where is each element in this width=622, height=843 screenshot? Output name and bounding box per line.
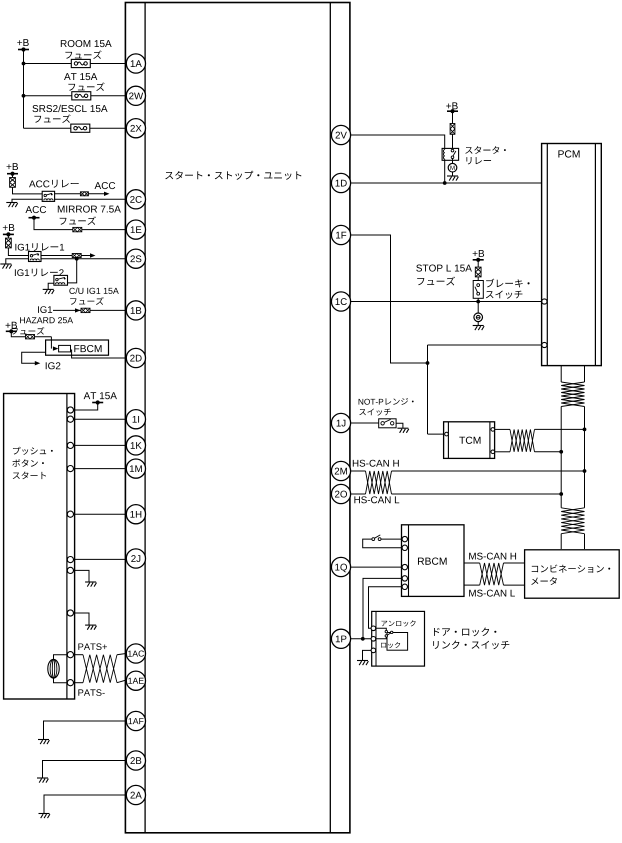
door pins <box>371 626 376 653</box>
pin 1AC <box>128 651 144 657</box>
twisted pair PATS braid <box>83 655 117 683</box>
wire common contact <box>376 637 387 639</box>
ground 1AF <box>38 739 49 741</box>
unit connector pins left <box>126 54 145 805</box>
relay ACC リレー <box>42 191 54 201</box>
wire to 2W <box>24 95 126 97</box>
wire +B bus down <box>23 50 25 129</box>
relay starter スタータ・リレー <box>442 148 459 160</box>
label fuse1 <box>65 50 101 58</box>
pin 2B <box>130 757 141 764</box>
TCM pin right H <box>491 428 495 432</box>
label push line2 <box>12 459 44 467</box>
pin 2S <box>130 255 141 262</box>
label door line2 <box>433 641 509 650</box>
label ROOM 15A <box>61 40 112 47</box>
label fuse4 <box>60 216 96 224</box>
wire 1AF to ground <box>44 721 126 740</box>
fusible link +B IG1 <box>7 234 9 238</box>
label RBCM <box>418 558 447 565</box>
pin 2O <box>335 491 347 498</box>
node TCM-H on bus <box>583 428 587 432</box>
wire to 1A <box>24 63 126 65</box>
wire ACC to 1E <box>34 218 125 230</box>
pin 2J <box>131 555 140 562</box>
label NOT-P line1 <box>359 398 414 405</box>
label PCM <box>558 150 579 157</box>
PCM pin 1F-branch <box>542 342 547 347</box>
wire branch to IG1 relay2 <box>68 259 77 283</box>
wire IG1 relay1 output <box>41 255 91 257</box>
wire PATS+ to 1AC <box>117 654 125 655</box>
label meter line1 <box>532 565 611 573</box>
wire RBCM to unlock contact <box>369 587 403 629</box>
fuse MIRROR 7.5A inline <box>73 227 82 231</box>
relay IG1 リレー1 <box>29 252 42 262</box>
twisted pair HS-CAN braid <box>366 471 392 494</box>
wire IG1 coil line to 2S <box>6 259 126 264</box>
node junction relay2 branch <box>75 257 79 261</box>
wire 1F branch <box>350 235 428 363</box>
label HS-CAN H <box>353 460 399 467</box>
wire branch vertical <box>427 345 429 434</box>
ground starter motor <box>447 175 458 177</box>
pin 1Q <box>335 564 347 573</box>
wire ACC relay output <box>55 193 105 195</box>
fusible link +B ACC <box>12 174 14 178</box>
fuse SRS2/ESCL 15A <box>71 124 90 132</box>
switch RBCM loop <box>381 538 402 540</box>
unit connector pins right <box>331 125 350 648</box>
stop lamp <box>474 313 483 322</box>
label NOT-P line2 <box>359 409 391 416</box>
TCM box <box>444 422 495 459</box>
label +B hazard <box>6 322 17 329</box>
pin 1J <box>337 420 346 427</box>
TCM pin right L <box>491 450 495 454</box>
wire +B to IG1 relay1 <box>8 248 28 256</box>
label FBCM <box>74 345 101 352</box>
power tap ACC (mirror fuse) <box>29 217 40 219</box>
label fuse6 <box>12 327 45 335</box>
pin 2X <box>130 125 141 132</box>
ground NOT-P switch <box>397 427 408 429</box>
wire to ground A <box>70 570 89 582</box>
power tap +B (top-left) <box>18 49 29 51</box>
wire to 1H <box>70 513 125 515</box>
wire brake switch down <box>477 298 479 313</box>
wire 2A to ground <box>44 795 125 814</box>
pin 1D <box>336 180 347 187</box>
ground stop lamp <box>473 325 484 327</box>
node TCM-L on bus <box>559 450 563 454</box>
wire 2B to ground <box>43 761 126 779</box>
wire unlock contact <box>376 628 387 630</box>
label brake sw1 <box>486 279 529 288</box>
wire fuse to brake switch <box>477 277 479 281</box>
TCM pin left <box>445 432 449 436</box>
fuse inline IG1 out <box>72 254 81 258</box>
label ACC relay <box>29 180 79 188</box>
label brake sw2 <box>486 290 523 298</box>
node junction 1F branch <box>426 361 430 365</box>
ground push-button B <box>85 624 96 626</box>
pin 1F <box>336 232 346 239</box>
label push line3 <box>13 472 46 480</box>
label ACC arrow <box>95 182 116 189</box>
label HAZARD 25A <box>20 317 73 323</box>
pin 1AF <box>129 718 144 724</box>
PCM pin 1C <box>542 299 547 304</box>
pin 1P <box>336 636 347 643</box>
wire to 1K <box>70 444 125 446</box>
wire TCM CAN H <box>495 428 510 430</box>
wire motor to ground <box>452 172 454 176</box>
wire AT15A tap <box>70 403 97 411</box>
brake switch ブレーキ・スイッチ <box>473 281 483 299</box>
wire IG1 relay2 to ground <box>48 283 54 289</box>
twisted pair TCM braid <box>510 429 535 451</box>
wire branch to TCM pin <box>428 433 445 435</box>
power tap +B brake <box>473 259 484 261</box>
wire starter coil down <box>444 157 446 183</box>
label +B brake <box>473 250 484 257</box>
wire 1C to PCM <box>350 301 541 303</box>
node HS-CAN-L on bus <box>559 492 563 496</box>
node junction brake/1C <box>476 300 480 304</box>
wire IG1 to 1B <box>53 309 125 311</box>
wire door switch to ground <box>363 650 372 660</box>
wire 1Q to RBCM <box>350 566 402 568</box>
node junction 1P <box>361 637 365 641</box>
wire RBCM to 1P junction <box>363 578 402 638</box>
wire to 1I <box>70 418 125 420</box>
wire branch to PCM pin <box>428 344 542 346</box>
pin 1E <box>131 226 142 233</box>
FBCM box <box>46 340 109 355</box>
fuse ROOM 15A <box>71 59 90 67</box>
label +B ACC <box>7 163 18 170</box>
wire into FBCM <box>50 337 52 344</box>
push-button connector pins <box>67 407 73 686</box>
label MS-CAN H <box>469 553 516 560</box>
fuse AT 15A <box>72 92 91 100</box>
fusible link starter <box>452 111 454 123</box>
fuse C/U IG1 inline <box>81 308 90 312</box>
label door line1 <box>434 628 496 637</box>
label HS-CAN L <box>354 496 399 503</box>
label PATS+ <box>78 643 107 650</box>
ground push-button A <box>85 581 96 583</box>
label ACC tap <box>25 206 46 213</box>
label IG1 relay1 <box>15 243 64 251</box>
wire fuse to starter relay <box>452 134 454 150</box>
power tap +B (IG1) <box>3 233 14 235</box>
ground 2B <box>37 777 48 779</box>
power tap +B (hazard) <box>6 330 17 332</box>
switch blade door <box>387 633 391 635</box>
ground door switch <box>357 660 368 662</box>
power tap AT 15A <box>92 402 103 404</box>
twisted pair bus braid upper <box>561 382 584 407</box>
pin 2D <box>130 355 141 362</box>
label M <box>450 166 454 170</box>
label fuse5 <box>70 297 104 305</box>
label meter line2 <box>531 577 557 585</box>
wire ACC relay coil to 2C <box>12 199 125 202</box>
wire 2O HS-CAN L <box>350 493 366 495</box>
wire FBCM to 2D <box>71 350 126 358</box>
door lock inner box <box>387 633 408 651</box>
door lock link switch box <box>372 611 425 666</box>
wire +B to FBCM <box>11 331 51 336</box>
wire lamp to ground <box>477 322 479 326</box>
ground IG1 relay2 <box>43 288 54 290</box>
label fuse2 <box>68 82 104 90</box>
label fuse stop <box>417 277 455 286</box>
power tap +B (ACC relay) <box>7 173 18 175</box>
label PATS- <box>78 689 104 696</box>
node junction +B/2W <box>22 94 26 98</box>
pin 1A <box>131 60 142 67</box>
label MS-CAN L <box>469 590 515 597</box>
wire 2V to starter relay <box>350 135 445 150</box>
ground IG1 relay1 coil <box>0 263 11 265</box>
CAN bus left conductor <box>560 366 562 382</box>
CAN bus right conductor <box>584 366 586 382</box>
start-stop unit スタート・ストップ・ユニット box <box>125 3 350 833</box>
pin 2V <box>336 132 347 139</box>
label starter relay2 <box>466 157 491 164</box>
label IG1 <box>38 306 52 313</box>
fuse inline ACC out <box>80 192 88 196</box>
label +B starter <box>446 102 457 109</box>
pin 1K <box>131 442 142 449</box>
label AT 15A <box>64 73 97 80</box>
label +B top-left <box>17 39 28 46</box>
starter motor M <box>448 163 457 172</box>
pin 1AE <box>128 678 143 684</box>
wire MS-CAN H <box>464 562 480 564</box>
label SRS2/ESCL 15A <box>32 105 107 112</box>
PCM box <box>542 144 602 366</box>
push-button start unit box <box>4 394 75 700</box>
fuse HAZARD inline <box>26 335 35 339</box>
pin 1M <box>130 465 142 472</box>
pin 1H <box>130 511 141 518</box>
immobilizer antenna coil <box>48 659 59 678</box>
label IG2 <box>46 362 61 369</box>
wire 1J to NOT-P switch <box>350 422 379 424</box>
pin 2W <box>129 92 143 99</box>
wire to 2X <box>24 127 126 129</box>
twisted pair MS-CAN braid <box>480 563 504 585</box>
relay IG1 リレー2 <box>54 275 68 285</box>
pin 2M <box>335 468 347 475</box>
power tap +B starter <box>447 110 458 112</box>
fusible link STOP L <box>477 260 479 268</box>
wire antenna loop <box>70 654 83 656</box>
label starter relay1 <box>465 146 506 154</box>
pin 2A <box>130 792 141 799</box>
FBCM internal component <box>59 345 71 352</box>
switch NOT-P range <box>379 419 396 428</box>
label push line1 <box>13 447 53 455</box>
wire relay to motor <box>452 159 454 164</box>
pin 1C <box>336 298 347 305</box>
pin 2C <box>130 196 142 203</box>
label start-stop unit <box>165 171 301 180</box>
RBCM box <box>402 525 465 597</box>
wire to 2J <box>70 558 125 560</box>
wire NOT-P to ground <box>396 423 403 428</box>
wire FBCM to IG2 <box>22 352 46 363</box>
combination meter box <box>525 550 620 598</box>
wire 2M HS-CAN H <box>350 470 366 472</box>
ground ACC relay coil <box>6 202 17 204</box>
label +B IG1 <box>3 224 14 231</box>
node junction starter/1D <box>443 181 447 185</box>
wire +B to ACC relay <box>13 187 43 194</box>
wire to 1M <box>70 468 125 470</box>
label AT 15A tap <box>84 392 117 399</box>
label lock <box>381 642 400 648</box>
pin 1B <box>131 307 142 314</box>
wire to ground B <box>70 613 89 625</box>
label MIRROR 7.5A <box>58 206 121 213</box>
label unlock <box>381 620 415 626</box>
pin 1I <box>133 416 139 423</box>
wire MS-CAN L <box>464 584 480 586</box>
label fuse3 <box>34 114 70 122</box>
wire 1D to PCM <box>350 182 542 184</box>
wire 1P to door switch <box>350 638 372 640</box>
RBCM pins <box>402 536 407 589</box>
label IG1 relay2 <box>15 269 64 277</box>
wire PATS- to 1AE <box>117 680 125 682</box>
label STOP L 15A <box>416 265 472 272</box>
wire TCM CAN L <box>495 451 510 453</box>
node HS-CAN-H on bus <box>583 469 587 473</box>
twisted pair bus braid lower <box>561 508 584 534</box>
ground 2A <box>39 813 50 815</box>
label C/U IG1 15A <box>69 288 118 294</box>
label TCM <box>459 437 480 444</box>
node junction +B/1A <box>22 62 26 66</box>
